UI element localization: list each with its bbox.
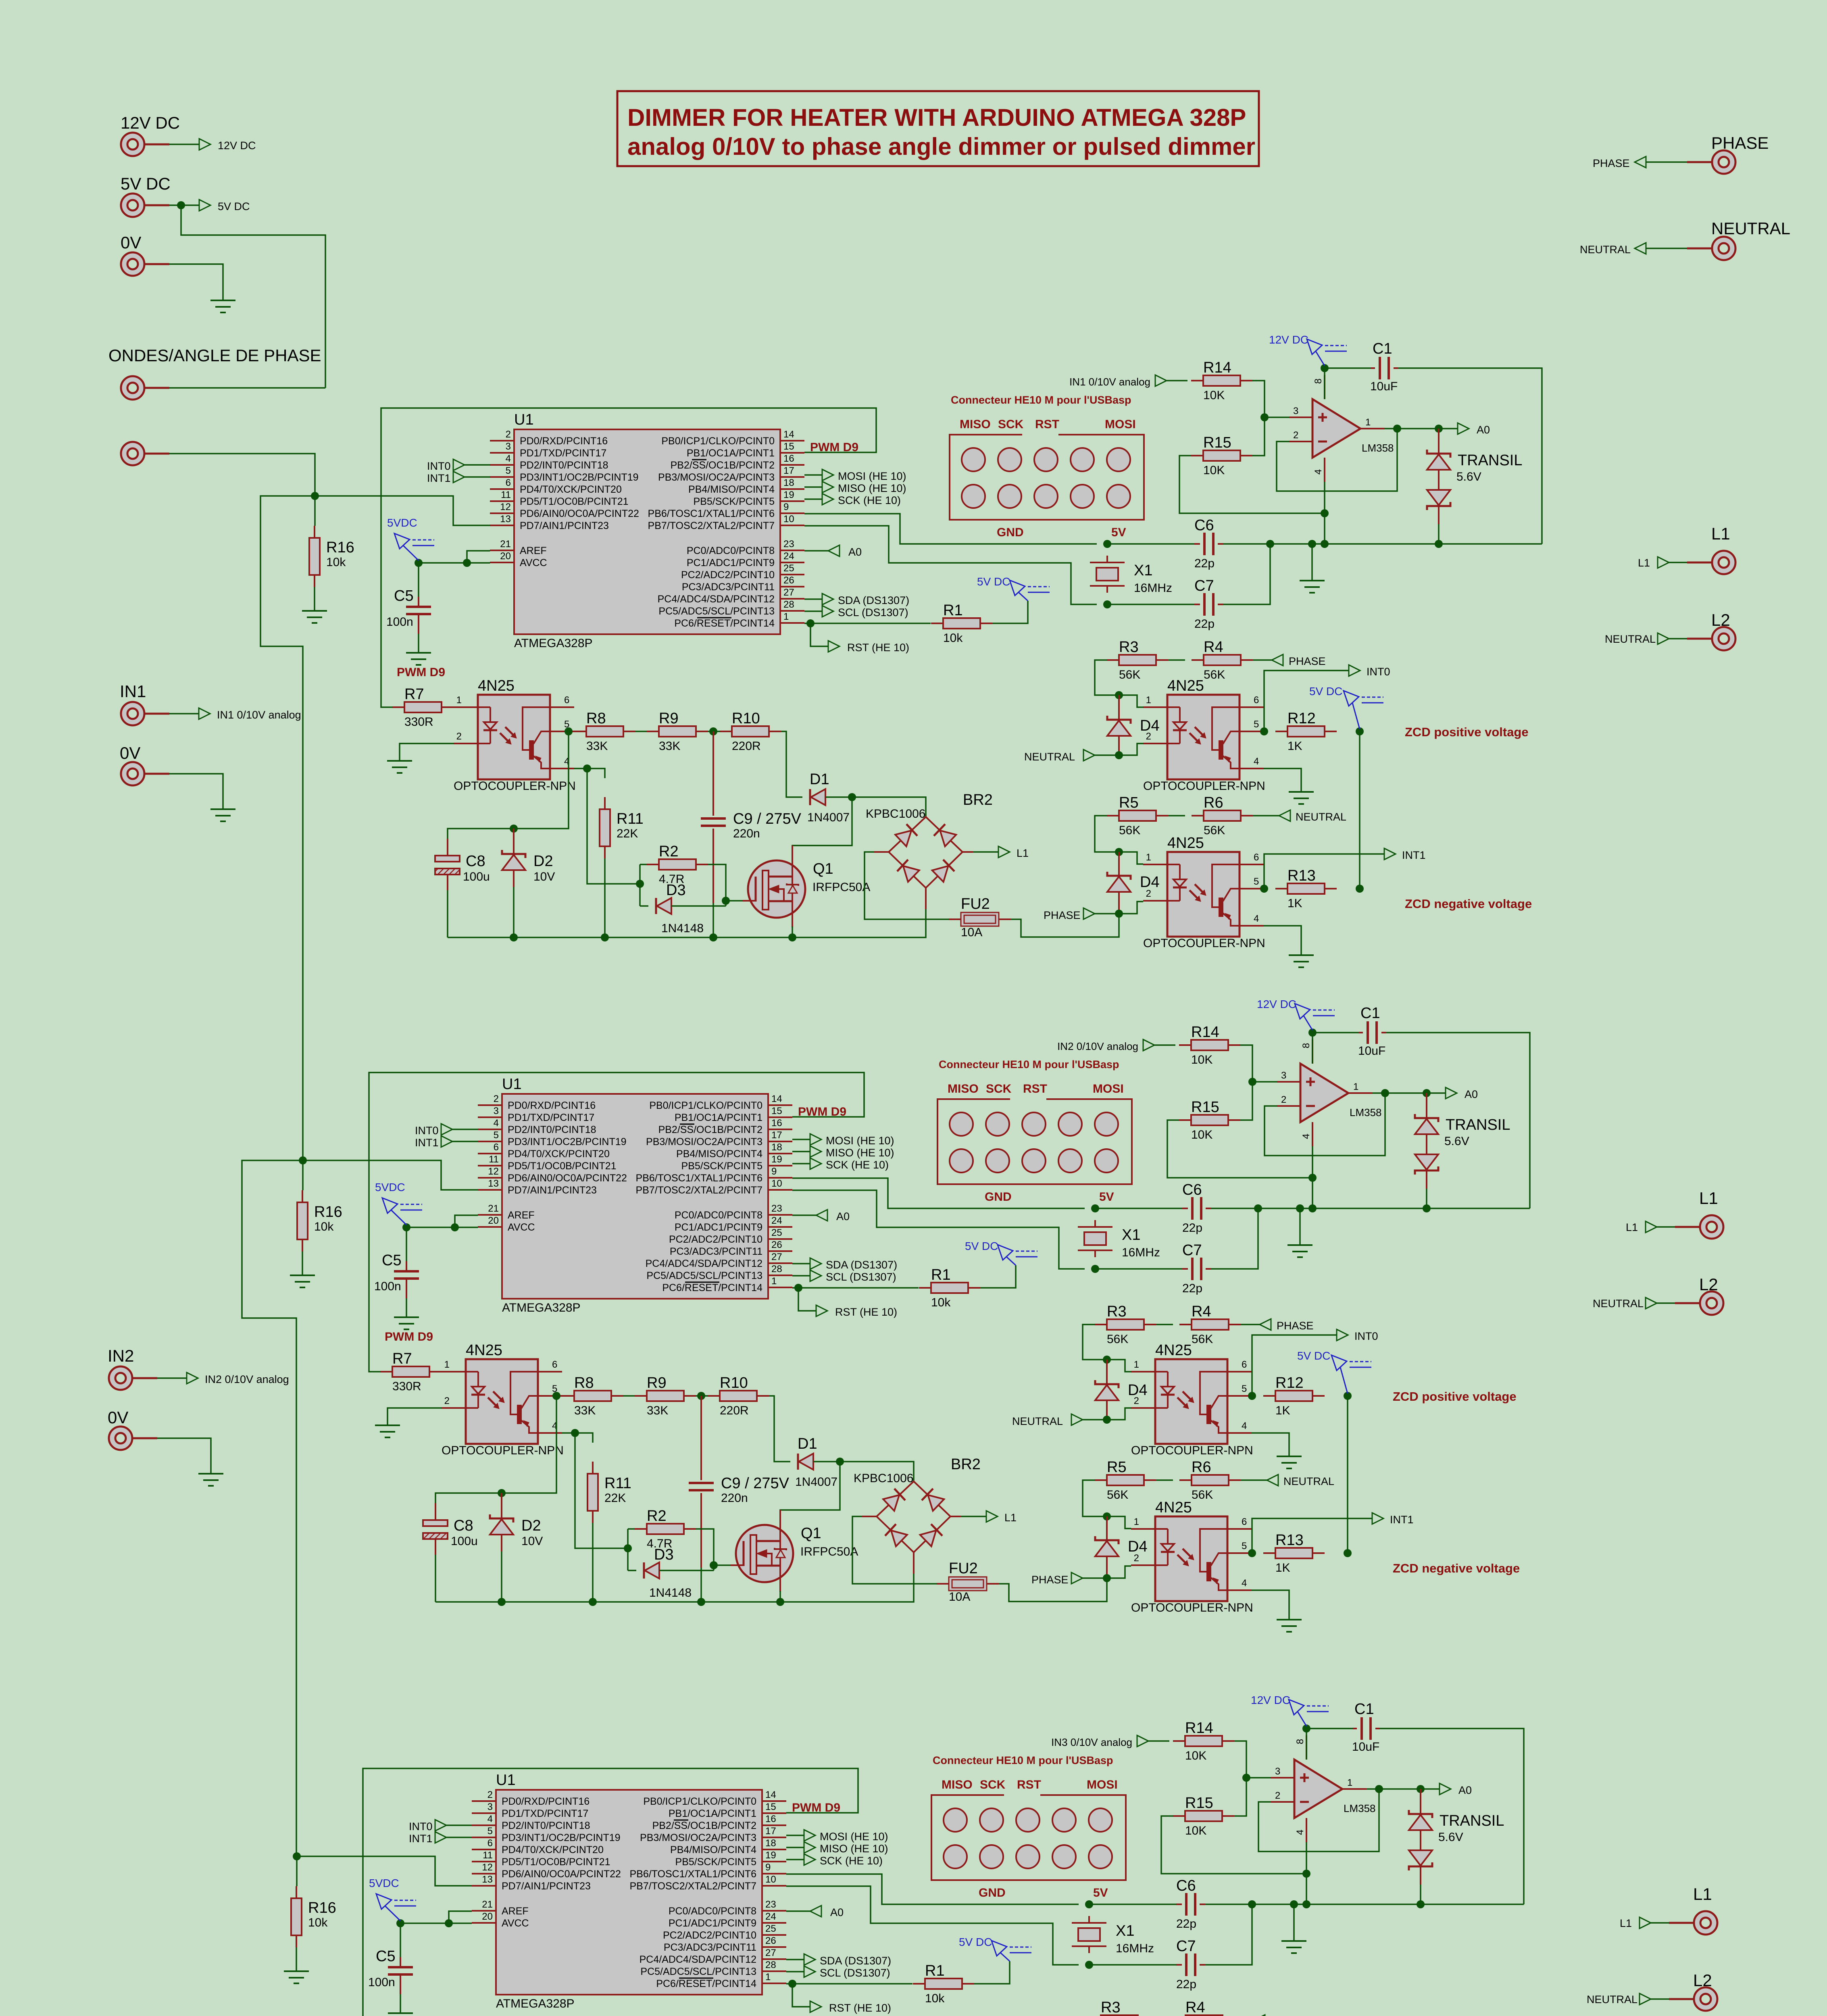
wire C8 to rail (section 2) xyxy=(435,1555,436,1602)
svg-text:SDA (DS1307): SDA (DS1307) xyxy=(820,1955,891,1967)
svg-text:10uF: 10uF xyxy=(1370,380,1398,393)
svg-text:PC4/ADC4/SDA/PCINT12: PC4/ADC4/SDA/PCINT12 xyxy=(658,594,775,605)
svg-text:12V DC: 12V DC xyxy=(121,113,180,132)
wire Q1 source to rail (section 2) xyxy=(779,1591,781,1602)
wire to ZCD+ opto pin2 (section 1) xyxy=(1119,744,1143,755)
wire 12V to C1 (section 3) xyxy=(1306,1728,1353,1729)
svg-text:ATMEGA328P: ATMEGA328P xyxy=(502,1301,581,1314)
svg-text:4: 4 xyxy=(1301,1134,1312,1139)
svg-text:ONDES/ANGLE DE PHASE: ONDES/ANGLE DE PHASE xyxy=(108,346,321,365)
wire rail to ground (section 1) xyxy=(1311,544,1313,581)
svg-text:PC1/ADC1/PCINT9: PC1/ADC1/PCINT9 xyxy=(675,1222,762,1233)
svg-text:L1: L1 xyxy=(1004,1512,1017,1524)
node R9/R10/C9 junction (section 2) xyxy=(697,1392,705,1400)
wire R6 to NEUTRAL flag (section 1) xyxy=(1253,815,1279,816)
svg-text:SCK (HE 10): SCK (HE 10) xyxy=(838,494,901,506)
resistor R1 (section 1) xyxy=(931,623,943,624)
svg-text:R7: R7 xyxy=(392,1350,412,1367)
terminal L2 (section 2) xyxy=(1700,1291,1723,1315)
capacitor C6 22p (section 2) xyxy=(1182,1208,1188,1209)
capacitor C9 plates (section 1) xyxy=(701,817,726,820)
node rail ground junction (section 3) xyxy=(1290,1900,1298,1908)
svg-text:10V: 10V xyxy=(533,870,555,883)
wire PD7 input (section 3) xyxy=(297,1856,472,1886)
svg-text:1: 1 xyxy=(771,1276,777,1287)
resistor R1 (section 2) xyxy=(919,1287,931,1289)
svg-text:4N25: 4N25 xyxy=(1167,677,1204,694)
wire PD7 input (section 2) xyxy=(303,1160,478,1190)
svg-text:8: 8 xyxy=(1313,379,1324,384)
wire pin4 to rail (section 1) xyxy=(1324,482,1325,544)
svg-text:SCK: SCK xyxy=(980,1778,1006,1791)
wire pin8 to 12V (section 3) xyxy=(1306,1729,1307,1760)
wire R14 to +in (section 1) xyxy=(1252,381,1265,417)
svg-text:OPTOCOUPLER-NPN: OPTOCOUPLER-NPN xyxy=(1143,937,1265,950)
svg-text:12: 12 xyxy=(500,502,511,512)
svg-text:Q1: Q1 xyxy=(813,860,833,877)
svg-text:PB5/SCK/PCINT5: PB5/SCK/PCINT5 xyxy=(694,496,775,507)
svg-text:27: 27 xyxy=(765,1947,776,1958)
node PD7 junction (section 1) xyxy=(311,492,319,500)
svg-text:1: 1 xyxy=(1347,1777,1352,1788)
svg-text:10uF: 10uF xyxy=(1352,1740,1379,1754)
svg-text:2: 2 xyxy=(1146,731,1151,742)
wire R2 right column (section 2) xyxy=(696,1529,714,1570)
node D4 lower junction (section 1) xyxy=(1115,848,1123,856)
svg-text:KPBC1006: KPBC1006 xyxy=(854,1472,913,1485)
IC U1 ATMEGA328P (section 2) xyxy=(502,1094,768,1299)
wire PD7 input (section 1) xyxy=(315,496,490,525)
node MOSI output flag (section 3) xyxy=(786,1835,804,1836)
node pin4-rail junction (section 3) xyxy=(1302,1900,1310,1908)
svg-text:R4: R4 xyxy=(1185,1999,1205,2016)
svg-text:10uF: 10uF xyxy=(1358,1044,1385,1058)
svg-text:C5: C5 xyxy=(376,1948,396,1965)
svg-text:C6: C6 xyxy=(1194,517,1214,534)
svg-text:TRANSIL: TRANSIL xyxy=(1440,1812,1504,1829)
ground under 0V terminal (section 2) xyxy=(198,1473,223,1475)
wire X1 to C7 (section 1) xyxy=(1107,604,1194,605)
ground under R16 (section 1) xyxy=(302,610,327,612)
wire pin5 to C8/D2 (section 1) xyxy=(448,731,569,843)
svg-text:PD2/INT0/PCINT18: PD2/INT0/PCINT18 xyxy=(502,1820,590,1831)
bridge rectifier BR2 KPBC1006 (section 1) xyxy=(889,817,962,888)
ground under 0V terminal (section 1) xyxy=(210,808,235,810)
svg-text:13: 13 xyxy=(488,1178,499,1189)
svg-text:R13: R13 xyxy=(1287,867,1316,884)
node SDA output flag (section 1) xyxy=(804,598,822,600)
node D4 upper junction (section 1) xyxy=(1115,691,1123,699)
node SCK output flag (section 2) xyxy=(792,1163,810,1164)
svg-text:PD3/INT1/OC2B/PCINT19: PD3/INT1/OC2B/PCINT19 xyxy=(502,1832,621,1843)
svg-text:1: 1 xyxy=(1134,1359,1139,1370)
svg-text:PD6/AIN0/OC0A/PCINT22: PD6/AIN0/OC0A/PCINT22 xyxy=(520,508,639,519)
svg-text:3: 3 xyxy=(1281,1070,1286,1081)
svg-text:L1: L1 xyxy=(1638,557,1650,569)
svg-text:ATMEGA328P: ATMEGA328P xyxy=(496,1997,575,2010)
node D4 upper junction (section 2) xyxy=(1103,1356,1111,1364)
wire C7 to rail (section 3) xyxy=(1205,1904,1252,1965)
svg-text:56K: 56K xyxy=(1192,1333,1213,1346)
svg-text:16: 16 xyxy=(771,1118,782,1129)
svg-text:1: 1 xyxy=(1353,1081,1358,1092)
svg-text:8: 8 xyxy=(1301,1043,1312,1048)
node R11-rail junction (section 2) xyxy=(589,1598,597,1606)
ground under R16 (section 2) xyxy=(290,1275,315,1276)
svg-text:5VDC: 5VDC xyxy=(387,516,417,529)
wire 5V to R13 (section 1) xyxy=(1359,731,1360,889)
svg-text:2: 2 xyxy=(1134,1553,1139,1564)
resistor R13 (section 1) xyxy=(1275,888,1287,889)
svg-text:0V: 0V xyxy=(120,744,140,762)
wire pin8 to 12V (section 1) xyxy=(1324,368,1325,399)
svg-text:RST: RST xyxy=(1017,1778,1041,1791)
svg-text:PHASE: PHASE xyxy=(1289,655,1326,667)
svg-text:56K: 56K xyxy=(1192,1488,1213,1502)
svg-text:5: 5 xyxy=(1254,719,1259,730)
wire pin4 to R2/D3 (section 2) xyxy=(575,1433,628,1548)
resistor R15 (section 1) xyxy=(1191,455,1203,456)
svg-text:5V DC: 5V DC xyxy=(977,575,1010,588)
wire pin4 to rail (section 3) xyxy=(1306,1842,1307,1904)
capacitor C7 plates (section 2) xyxy=(1191,1258,1194,1280)
svg-text:OPTOCOUPLER-NPN: OPTOCOUPLER-NPN xyxy=(1131,1444,1253,1457)
svg-text:D1: D1 xyxy=(810,771,829,788)
svg-text:17: 17 xyxy=(771,1130,782,1141)
terminal L1 (section 2) xyxy=(1700,1215,1723,1239)
wire C1 to ground rail (section 1) xyxy=(1398,368,1542,544)
svg-text:PB7/TOSC2/XTAL2/PCINT7: PB7/TOSC2/XTAL2/PCINT7 xyxy=(636,1185,762,1196)
resistor R14 (section 2) xyxy=(1179,1044,1191,1046)
svg-text:13: 13 xyxy=(500,514,511,525)
node Q1-rail junction (section 1) xyxy=(788,933,796,941)
svg-text:NEUTRAL: NEUTRAL xyxy=(1012,1415,1063,1427)
svg-text:FU2: FU2 xyxy=(961,896,990,912)
svg-text:12V DC: 12V DC xyxy=(218,140,256,152)
svg-text:100u: 100u xyxy=(451,1535,478,1548)
svg-text:1: 1 xyxy=(1365,417,1371,428)
svg-text:LM358: LM358 xyxy=(1344,1802,1376,1814)
node R13/5V junction (section 2) xyxy=(1344,1549,1352,1557)
terminal ONDES/ANGLE DE PHASE xyxy=(121,376,144,400)
svg-text:22p: 22p xyxy=(1182,1221,1202,1235)
svg-text:24: 24 xyxy=(783,551,794,562)
node SDA output flag (section 3) xyxy=(786,1959,804,1960)
svg-text:R16: R16 xyxy=(314,1204,342,1220)
svg-text:PD1/TXD/PCINT17: PD1/TXD/PCINT17 xyxy=(520,448,606,459)
wire transil to rail (section 3) xyxy=(1420,1885,1421,1904)
node X1 bottom junction (section 2) xyxy=(1091,1265,1099,1273)
resistor R13 (section 2) xyxy=(1263,1552,1275,1554)
svg-text:10k: 10k xyxy=(943,631,963,645)
wire to Q1 gate (section 2) xyxy=(714,1564,731,1566)
capacitor C5 (section 2) xyxy=(406,1261,407,1271)
svg-text:6: 6 xyxy=(564,695,569,706)
svg-text:PC0/ADC0/PCINT8: PC0/ADC0/PCINT8 xyxy=(687,545,775,556)
node SCL output flag (section 3) xyxy=(786,1971,804,1972)
svg-text:11: 11 xyxy=(483,1850,493,1861)
svg-text:4: 4 xyxy=(1242,1578,1247,1589)
wire pin4 to R2/D3 (section 1) xyxy=(587,768,640,884)
wire RESET to RST flag (section 1) xyxy=(810,623,828,646)
svg-text:PHASE: PHASE xyxy=(1593,157,1630,169)
svg-text:C6: C6 xyxy=(1176,1877,1196,1894)
node D4 lower junction (section 2) xyxy=(1103,1512,1111,1520)
svg-text:PD7/AIN1/PCINT23: PD7/AIN1/PCINT23 xyxy=(520,520,609,531)
wire ZCD- pin4 to ground (section 2) xyxy=(1252,1590,1289,1620)
wire AVCC (section 2) xyxy=(406,1227,478,1228)
svg-text:PD4/T0/XCK/PCINT20: PD4/T0/XCK/PCINT20 xyxy=(520,484,622,495)
IC U1 ATMEGA328P (section 3) xyxy=(496,1790,762,1995)
svg-text:R11: R11 xyxy=(617,810,644,827)
svg-text:R1: R1 xyxy=(925,1962,945,1979)
resistor R5 (section 2) xyxy=(1095,1479,1107,1481)
ground at XTAL rail (section 1) xyxy=(1300,580,1325,581)
node ZCD+ pin5 junction (section 2) xyxy=(1248,1392,1256,1400)
svg-text:3: 3 xyxy=(506,441,511,452)
wire 0V to ground xyxy=(169,264,223,300)
wire DC- ground rail (section 2) xyxy=(435,1574,914,1602)
svg-text:TRANSIL: TRANSIL xyxy=(1446,1116,1510,1133)
terminal NEUTRAL xyxy=(1712,237,1735,260)
resistor R5 (section 1) xyxy=(1107,815,1119,816)
svg-text:PC3/ADC3/PCINT11: PC3/ADC3/PCINT11 xyxy=(670,1246,762,1257)
node A0 output flag (section 1) xyxy=(1458,423,1469,434)
wire PD7 bus section2-3 xyxy=(242,1160,302,1856)
svg-text:R3: R3 xyxy=(1107,1303,1127,1320)
capacitor C6 22p (section 1) xyxy=(1194,543,1200,545)
node R9/R10/C9 junction (section 1) xyxy=(709,727,717,735)
terminal PHASE xyxy=(1712,150,1735,174)
svg-text:A0: A0 xyxy=(830,1906,844,1918)
capacitor C8 100u (section 1) xyxy=(447,839,448,856)
capacitor C8 100u (section 2) xyxy=(435,1503,436,1520)
svg-text:PB0/ICP1/CLKO/PCINT0: PB0/ICP1/CLKO/PCINT0 xyxy=(661,435,775,447)
wire pin5 to C8/D2 (section 2) xyxy=(435,1396,556,1507)
wire transil to rail (section 1) xyxy=(1438,524,1440,544)
resistor R16 (section 3) xyxy=(296,1886,297,1898)
node SCK output flag (section 1) xyxy=(804,498,822,500)
svg-text:PHASE: PHASE xyxy=(1044,909,1081,921)
svg-text:C7: C7 xyxy=(1176,1938,1196,1955)
wire 0V to ground (section 2) xyxy=(157,1438,211,1474)
ground under C5 (section 2) xyxy=(394,1316,419,1318)
svg-text:PB2/SS/OC1B/PCINT2: PB2/SS/OC1B/PCINT2 xyxy=(671,460,775,471)
svg-text:NEUTRAL: NEUTRAL xyxy=(1593,1297,1644,1310)
ground under 0V xyxy=(210,300,235,301)
wire output to A0 (section 3) xyxy=(1367,1788,1440,1790)
svg-text:SCL (DS1307): SCL (DS1307) xyxy=(826,1271,896,1283)
wire to ZCD- opto pin1 (section 1) xyxy=(1119,852,1143,864)
svg-text:1: 1 xyxy=(456,695,462,706)
capacitor C9 plates (section 2) xyxy=(689,1482,714,1484)
svg-text:C5: C5 xyxy=(382,1252,402,1269)
svg-text:24: 24 xyxy=(771,1215,782,1226)
svg-text:PB2/SS/OC1B/PCINT2: PB2/SS/OC1B/PCINT2 xyxy=(658,1124,762,1135)
wire opto pin2 to ground (section 1) xyxy=(400,744,454,761)
node 12V DC net flag xyxy=(169,144,199,145)
resistor R16 (section 1) xyxy=(314,526,315,538)
svg-text:GND: GND xyxy=(979,1886,1006,1899)
diode D3 1N4148 (section 2) xyxy=(643,1562,645,1579)
overline RESET on PC6 label xyxy=(697,617,731,619)
svg-text:R15: R15 xyxy=(1191,1099,1219,1116)
wire AVCC (section 1) xyxy=(419,562,490,564)
diode D2 zener 10V (section 2) xyxy=(501,1493,502,1518)
capacitor C9 / 275V (section 1) xyxy=(712,731,714,816)
node MISO output flag (section 3) xyxy=(786,1847,804,1848)
svg-text:33K: 33K xyxy=(574,1404,596,1417)
svg-text:IN1 0/10V analog: IN1 0/10V analog xyxy=(217,709,301,721)
wire pin4 to R11 (section 2) xyxy=(562,1433,593,1443)
crystal X1 16MHz (section 3) xyxy=(1078,1928,1100,1941)
node transil junction (section 1) xyxy=(1435,425,1443,433)
svg-text:33K: 33K xyxy=(586,739,608,753)
wire FU2 to PHASE node (section 2) xyxy=(999,1578,1107,1602)
resistor R8 (section 1) xyxy=(574,731,586,732)
node D2 top junction (section 2) xyxy=(498,1489,506,1497)
node output-feedback junction (section 3) xyxy=(1375,1785,1383,1793)
svg-text:10K: 10K xyxy=(1185,1824,1206,1837)
node C9-rail junction (section 1) xyxy=(709,933,717,941)
node rail ground junction (section 2) xyxy=(1296,1204,1304,1212)
svg-text:1: 1 xyxy=(765,1972,771,1983)
svg-text:C7: C7 xyxy=(1194,577,1214,594)
svg-text:1K: 1K xyxy=(1275,1404,1290,1417)
svg-text:PB4/MISO/PCINT4: PB4/MISO/PCINT4 xyxy=(670,1844,756,1856)
node +in junction (section 3) xyxy=(1242,1774,1250,1782)
svg-text:26: 26 xyxy=(771,1239,782,1250)
wire to Q1 gate (section 1) xyxy=(726,900,744,902)
svg-text:10K: 10K xyxy=(1185,1749,1206,1762)
svg-text:MOSI (HE 10): MOSI (HE 10) xyxy=(826,1135,894,1147)
node R13/5V junction (section 1) xyxy=(1356,885,1364,893)
svg-text:INT0: INT0 xyxy=(1354,1330,1378,1342)
node D2 top junction (section 1) xyxy=(510,825,518,833)
node X1 top junction (section 2) xyxy=(1091,1204,1099,1212)
wire R1 to 5V flag (section 3) xyxy=(974,1961,1010,1984)
svg-text:R1: R1 xyxy=(931,1266,951,1283)
svg-text:16MHz: 16MHz xyxy=(1116,1942,1154,1955)
node pin4/R15 junction (section 1) xyxy=(1321,509,1329,517)
node PHASE input junction lower (section 2) xyxy=(1103,1574,1111,1582)
wire node to bridge + (section 2) xyxy=(840,1462,914,1481)
svg-text:3: 3 xyxy=(487,1801,493,1812)
svg-text:0V: 0V xyxy=(108,1408,128,1427)
capacitor C5 plates (section 1) xyxy=(406,606,431,608)
svg-text:16: 16 xyxy=(765,1814,776,1824)
svg-text:25: 25 xyxy=(771,1227,782,1238)
wire R9-R10 (section 1) xyxy=(708,731,720,732)
svg-text:1N4148: 1N4148 xyxy=(649,1586,692,1599)
svg-text:FU2: FU2 xyxy=(949,1560,978,1577)
svg-text:16MHz: 16MHz xyxy=(1122,1246,1160,1259)
svg-text:L1: L1 xyxy=(1711,524,1730,543)
svg-text:16MHz: 16MHz xyxy=(1134,581,1172,595)
wire pin8 to 12V (section 2) xyxy=(1312,1033,1313,1064)
wire R4 to PHASE flag (section 1) xyxy=(1253,659,1272,661)
node MISO output flag (section 2) xyxy=(792,1151,810,1152)
svg-text:PD0/RXD/PCINT16: PD0/RXD/PCINT16 xyxy=(508,1100,596,1111)
wire XTAL1 pin9 (section 2) xyxy=(792,1178,1085,1208)
wire rail to ground (section 3) xyxy=(1293,1904,1295,1941)
wire R15 to gnd column (section 1) xyxy=(1179,456,1325,513)
node ZCD- pin5 junction (section 2) xyxy=(1248,1549,1256,1557)
wire pin1 to R1 (section 3) xyxy=(786,1983,912,1985)
svg-text:23: 23 xyxy=(765,1899,776,1910)
wire R15 to +in (section 3) xyxy=(1234,1778,1246,1816)
svg-text:PD2/INT0/PCINT18: PD2/INT0/PCINT18 xyxy=(508,1124,596,1135)
svg-text:OPTOCOUPLER-NPN: OPTOCOUPLER-NPN xyxy=(1131,1601,1253,1614)
terminal 0V (section 1) xyxy=(121,762,144,785)
svg-text:14: 14 xyxy=(765,1789,776,1800)
svg-text:MISO (HE 10): MISO (HE 10) xyxy=(820,1843,888,1855)
node Q1-rail junction (section 2) xyxy=(776,1598,784,1606)
node 12V junction (section 1) xyxy=(1321,364,1329,372)
svg-text:6: 6 xyxy=(552,1359,557,1370)
svg-text:4N25: 4N25 xyxy=(1167,835,1204,852)
svg-text:AREF: AREF xyxy=(502,1906,529,1917)
svg-text:Connecteur HE10 M pour l'USBas: Connecteur HE10 M pour l'USBasp xyxy=(951,394,1131,406)
svg-text:MOSI (HE 10): MOSI (HE 10) xyxy=(820,1831,888,1843)
wire to R2 (section 1) xyxy=(640,864,647,865)
node RST output flag (section 2) xyxy=(816,1305,827,1316)
wire feedback (section 1) xyxy=(1277,429,1397,491)
svg-text:10K: 10K xyxy=(1203,389,1225,402)
capacitor C7 22p (section 2) xyxy=(1182,1268,1188,1270)
wire X1 to C6 (section 2) xyxy=(1095,1208,1182,1209)
overline SS on PB2 label xyxy=(680,1124,694,1125)
wire ONDES to 5V riser xyxy=(169,387,325,389)
svg-text:INT1: INT1 xyxy=(1390,1514,1414,1526)
svg-text:PB5/SCK/PCINT5: PB5/SCK/PCINT5 xyxy=(675,1856,756,1868)
diode D4 zener upper (section 1) xyxy=(1118,695,1120,720)
svg-text:PD0/RXD/PCINT16: PD0/RXD/PCINT16 xyxy=(502,1796,590,1807)
svg-text:10k: 10k xyxy=(308,1916,328,1929)
svg-text:PB5/SCK/PCINT5: PB5/SCK/PCINT5 xyxy=(681,1160,762,1172)
wire ZCD+ pin4 to ground (section 2) xyxy=(1252,1433,1289,1456)
svg-text:IRFPC50A: IRFPC50A xyxy=(800,1545,858,1558)
svg-text:IN1 0/10V analog: IN1 0/10V analog xyxy=(1069,376,1150,388)
svg-text:PD6/AIN0/OC0A/PCINT22: PD6/AIN0/OC0A/PCINT22 xyxy=(508,1173,627,1184)
crystal X1 16MHz (section 1) xyxy=(1096,568,1118,581)
resistor R11 (section 2) xyxy=(592,1462,594,1474)
svg-text:14: 14 xyxy=(783,429,794,440)
svg-text:22p: 22p xyxy=(1182,1282,1202,1295)
svg-text:R8: R8 xyxy=(574,1375,594,1391)
svg-text:R2: R2 xyxy=(647,1508,667,1524)
wire AVCC to C5 (section 3) xyxy=(400,1923,401,1964)
wire D1 to node (section 1) xyxy=(825,796,852,798)
svg-text:5.6V: 5.6V xyxy=(1456,470,1481,483)
svg-text:22p: 22p xyxy=(1194,617,1215,631)
svg-text:4N25: 4N25 xyxy=(1155,1499,1192,1516)
wire D2 to rail (section 2) xyxy=(501,1552,502,1602)
capacitor C1 plates (section 1) xyxy=(1379,357,1381,379)
svg-text:IN3 0/10V analog: IN3 0/10V analog xyxy=(1051,1736,1132,1748)
ground under R16 (section 3) xyxy=(284,1970,309,1972)
wire to ZCD- opto pin2 (section 1) xyxy=(1119,902,1143,914)
wire R3-R4 (section 2) xyxy=(1156,1324,1173,1325)
svg-text:PHASE: PHASE xyxy=(1031,1574,1069,1586)
node R2/D3 left junction (section 1) xyxy=(636,880,644,888)
svg-text:2: 2 xyxy=(494,1093,499,1104)
svg-text:INT1: INT1 xyxy=(415,1137,439,1149)
svg-text:5: 5 xyxy=(494,1130,499,1141)
svg-text:X1: X1 xyxy=(1116,1922,1134,1939)
wire PD7 to R16 (section 2) xyxy=(302,1160,304,1190)
svg-text:19: 19 xyxy=(771,1154,782,1165)
